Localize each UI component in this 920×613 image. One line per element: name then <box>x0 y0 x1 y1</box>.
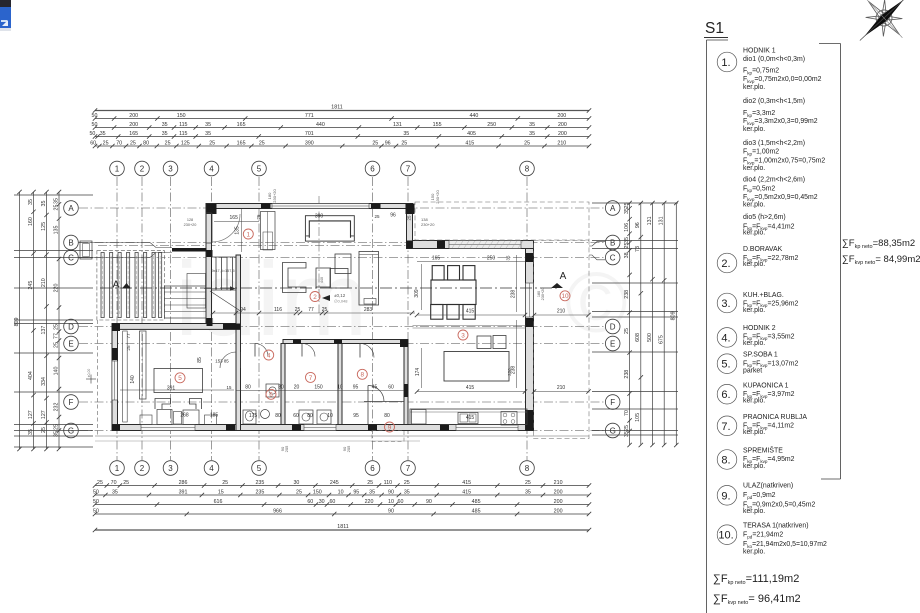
svg-text:25: 25 <box>401 140 407 146</box>
svg-text:7: 7 <box>309 375 313 382</box>
door laundry swing <box>302 344 315 357</box>
svg-text:dio1 (0,0m<h<0,3m): dio1 (0,0m<h<0,3m) <box>743 56 805 63</box>
svg-text:116: 116 <box>274 307 282 313</box>
window top wall <box>272 204 369 209</box>
svg-text:35: 35 <box>525 489 531 495</box>
grid bubble 5 top <box>252 161 267 176</box>
svg-text:A: A <box>113 280 120 291</box>
room label 4 HODNIK 2 <box>264 350 274 360</box>
svg-text:∑Fkvp neto= 84,99m2: ∑Fkvp neto= 84,99m2 <box>842 254 920 266</box>
svg-text:Fkvp=0,75m2x0,0=0,00m2: Fkvp=0,75m2x0,0=0,00m2 <box>743 76 822 84</box>
svg-text:ker.plo.: ker.plo. <box>743 230 765 237</box>
entry door (ULAZ) with swing arc <box>364 386 404 425</box>
svg-text:S1: S1 <box>705 20 724 37</box>
svg-text:25: 25 <box>53 205 59 211</box>
svg-text:PRAONICA RUBLJA: PRAONICA RUBLJA <box>743 414 807 421</box>
svg-text:35: 35 <box>162 122 168 128</box>
grid bubble E right <box>605 336 620 351</box>
dimension chain left row 3 <box>41 190 49 451</box>
structural columns (black) <box>112 204 534 431</box>
svg-text:ker.plo.: ker.plo. <box>743 165 765 172</box>
bathroom washbasin <box>261 410 270 419</box>
svg-text:parket: parket <box>743 368 762 375</box>
sofa (living room) <box>305 216 354 241</box>
svg-text:405: 405 <box>467 131 476 137</box>
dimension chain top row 4 <box>89 131 591 139</box>
dimension chain right row 4 <box>659 201 667 447</box>
lintel beam above exterior steps <box>172 248 207 252</box>
laundry washing machine <box>299 410 313 424</box>
svg-text:485: 485 <box>472 508 481 514</box>
svg-text:125: 125 <box>41 222 47 231</box>
wall row D lower-left <box>112 324 240 330</box>
svg-text:390: 390 <box>305 140 314 146</box>
window left wall lower (bedroom) <box>112 361 118 400</box>
bathroom toilet <box>243 410 256 424</box>
svg-text:90: 90 <box>426 499 432 505</box>
svg-text:35: 35 <box>205 122 211 128</box>
svg-text:153 85: 153 85 <box>215 359 229 364</box>
svg-text:96: 96 <box>390 213 396 219</box>
leader step C left <box>78 253 172 258</box>
svg-text:415: 415 <box>462 489 471 495</box>
kitchen beam lines <box>413 325 526 327</box>
svg-text:A: A <box>560 271 567 282</box>
svg-text:dio5 (h>2,6m): dio5 (h>2,6m) <box>743 214 786 221</box>
svg-text:200: 200 <box>129 113 138 119</box>
svg-text:150: 150 <box>314 385 323 391</box>
hall closet <box>261 212 276 250</box>
door bedroom swing <box>220 352 241 368</box>
legend room 10 circle <box>717 525 737 545</box>
svg-text:10: 10 <box>327 413 333 419</box>
grid bubble A right <box>605 201 620 216</box>
grid bubble B left <box>64 235 79 250</box>
svg-text:KUH.+BLAG.: KUH.+BLAG. <box>743 292 784 299</box>
grid bubble D right <box>605 319 620 334</box>
svg-text:35: 35 <box>53 198 59 204</box>
svg-text:6.: 6. <box>721 389 730 401</box>
svg-text:KUPAONICA 1: KUPAONICA 1 <box>743 383 789 390</box>
kitchen fridge <box>412 410 427 425</box>
svg-text:230+20: 230+20 <box>541 288 545 301</box>
svg-text:230+20: 230+20 <box>272 189 277 203</box>
svg-text:35: 35 <box>112 489 118 495</box>
svg-text:D: D <box>610 322 616 331</box>
svg-text:25: 25 <box>259 140 265 146</box>
svg-text:391: 391 <box>167 386 176 392</box>
extension lines right <box>592 203 678 435</box>
room label 2 D.BORAVAK <box>310 292 320 302</box>
svg-text:25: 25 <box>624 203 630 209</box>
svg-text:35: 35 <box>624 237 630 243</box>
room label 7 PRAONICA RUBLJA <box>306 372 316 382</box>
section marker A left <box>113 280 131 291</box>
svg-text:90: 90 <box>388 508 394 514</box>
svg-text:73: 73 <box>635 246 641 252</box>
svg-text:50: 50 <box>92 113 98 119</box>
taskbar icon fragment top-left <box>0 0 11 31</box>
svg-text:334: 334 <box>41 377 47 386</box>
svg-text:35: 35 <box>529 122 535 128</box>
legend room 5 circle <box>717 354 737 374</box>
svg-text:9.: 9. <box>721 490 730 502</box>
svg-text:ker.plo.: ker.plo. <box>743 463 765 470</box>
svg-text:500: 500 <box>647 333 653 342</box>
legend entry 2 D.BORAVAK <box>743 246 798 268</box>
svg-text:137: 137 <box>41 326 47 335</box>
svg-text:185: 185 <box>210 413 219 419</box>
svg-text:96: 96 <box>635 222 641 228</box>
svg-text:238: 238 <box>511 290 517 299</box>
window right wall <box>526 283 534 317</box>
svg-text:25: 25 <box>103 140 109 146</box>
svg-text:175: 175 <box>249 413 258 419</box>
svg-text:ker.plo.: ker.plo. <box>743 508 765 515</box>
svg-text:4: 4 <box>209 164 214 173</box>
svg-text:160: 160 <box>28 217 34 226</box>
svg-text:10: 10 <box>388 499 394 505</box>
room label 10 TERASA 1 <box>560 291 570 301</box>
svg-text:ker.plo.: ker.plo. <box>743 429 765 436</box>
svg-text:60: 60 <box>90 140 96 146</box>
svg-text:ker.plo.: ker.plo. <box>743 202 765 209</box>
svg-text:809: 809 <box>671 311 677 320</box>
svg-text:286: 286 <box>179 480 188 486</box>
door terrace-hall with swing arc <box>206 213 240 243</box>
svg-text:D.BORAVAK: D.BORAVAK <box>743 246 783 253</box>
svg-text:283: 283 <box>364 307 373 313</box>
svg-text:35: 35 <box>529 131 535 137</box>
svg-text:Fkvp=1,00m2x0,75=0,75m2: Fkvp=1,00m2x0,75=0,75m2 <box>743 158 825 166</box>
svg-text:415: 415 <box>466 309 475 315</box>
svg-text:415: 415 <box>462 480 471 486</box>
svg-text:230+20: 230+20 <box>184 223 197 227</box>
grid bubble 6 bottom <box>365 461 380 476</box>
svg-text:35: 35 <box>162 131 168 137</box>
svg-text:25: 25 <box>53 324 59 330</box>
svg-text:A: A <box>610 204 616 213</box>
svg-text:140: 140 <box>53 367 59 376</box>
dining area dim row y259.5 <box>417 256 525 262</box>
svg-text:ker.plo.: ker.plo. <box>743 84 765 91</box>
svg-text:35: 35 <box>28 429 34 435</box>
legend room 9 circle <box>717 486 737 506</box>
svg-text:1811: 1811 <box>331 104 342 110</box>
grid bubble E left <box>64 336 79 351</box>
svg-text:15: 15 <box>227 385 232 390</box>
legend entry 4 HODNIK 2 <box>743 325 795 347</box>
window top-right wall <box>449 241 523 249</box>
grid bubble 7 top <box>401 161 416 176</box>
svg-text:30: 30 <box>293 480 299 486</box>
svg-text:127: 127 <box>41 410 47 419</box>
svg-text:∅0,048: ∅0,048 <box>334 299 348 304</box>
svg-text:809: 809 <box>14 318 20 327</box>
svg-text:150: 150 <box>313 489 322 495</box>
svg-text:155: 155 <box>433 122 442 128</box>
svg-text:B: B <box>610 238 615 247</box>
tv cabinet <box>359 252 379 306</box>
window bottom wall laundry <box>304 425 336 431</box>
grid bubble D left <box>64 319 79 334</box>
door bathroom swing <box>255 344 268 357</box>
interior dimension row y388 <box>236 385 404 391</box>
svg-text:9: 9 <box>388 424 392 431</box>
svg-text:E: E <box>68 339 73 348</box>
svg-text:95: 95 <box>353 413 359 419</box>
svg-text:25: 25 <box>126 345 131 351</box>
svg-text:106: 106 <box>624 223 630 232</box>
svg-text:©: © <box>565 256 628 351</box>
svg-text:±0,00: ±0,00 <box>87 369 91 378</box>
svg-text:35: 35 <box>41 201 47 207</box>
grid bubble 1 bottom <box>110 461 125 476</box>
interior dimension row y310 <box>211 307 415 315</box>
leader step B right <box>589 242 605 246</box>
porch column left edge <box>80 241 92 259</box>
svg-text:25: 25 <box>53 342 59 348</box>
svg-text:415: 415 <box>466 385 475 391</box>
svg-text:10: 10 <box>561 293 569 300</box>
svg-text:415: 415 <box>465 140 474 146</box>
svg-text:1811: 1811 <box>337 524 348 530</box>
svg-text:77: 77 <box>126 333 131 339</box>
svg-text:440: 440 <box>469 113 478 119</box>
svg-text:25: 25 <box>123 480 129 486</box>
svg-text:25: 25 <box>372 140 378 146</box>
wall lining strip bedroom <box>123 331 128 422</box>
grid bubble F right <box>605 395 620 410</box>
svg-text:2.: 2. <box>721 258 730 270</box>
svg-text:150: 150 <box>177 113 186 119</box>
svg-text:25: 25 <box>525 480 531 486</box>
svg-text:8: 8 <box>525 464 530 473</box>
svg-text:95: 95 <box>353 385 359 391</box>
svg-text:25: 25 <box>295 307 301 313</box>
svg-text:25: 25 <box>165 140 171 146</box>
svg-text:35: 35 <box>624 431 630 437</box>
svg-text:230+20: 230+20 <box>421 222 435 227</box>
svg-text:80: 80 <box>278 385 284 391</box>
wall exterior top-right <box>407 241 534 249</box>
wall bedroom-corridor x238 <box>236 329 241 430</box>
grid bubble 4 top <box>204 161 219 176</box>
extension lines left <box>14 195 93 447</box>
legend room 6 circle <box>717 384 737 404</box>
svg-text:250: 250 <box>487 256 496 262</box>
svg-text:80: 80 <box>384 413 390 419</box>
room label 8 SPREMISTE <box>357 369 367 379</box>
bedroom side cabinets <box>140 415 152 425</box>
svg-text:200: 200 <box>558 122 567 128</box>
dining chairs <box>431 266 476 320</box>
legend entry 8 SPREMISTE <box>743 445 795 470</box>
svg-text:dio4 (2,2m<h<2,6m): dio4 (2,2m<h<2,6m) <box>743 176 805 183</box>
coffee table <box>316 268 331 287</box>
svg-text:235: 235 <box>255 480 264 486</box>
dimension chain right row 1 <box>624 201 632 447</box>
entry canopy dashed <box>372 431 404 442</box>
dimension chain left total 809 <box>14 190 22 451</box>
svg-text:60: 60 <box>329 499 335 505</box>
watermark <box>175 241 628 358</box>
armchair <box>283 263 307 293</box>
wall bath-laundry x283 <box>281 344 285 425</box>
dimension chain left row 4 <box>53 190 61 451</box>
svg-text:3.: 3. <box>721 298 730 310</box>
svg-text:135: 135 <box>234 226 240 235</box>
grid bubble 1 top <box>110 161 125 176</box>
svg-text:5.: 5. <box>721 359 730 371</box>
svg-text:165: 165 <box>230 215 239 221</box>
svg-text:dio3 (1,5m<h<2,2m): dio3 (1,5m<h<2,2m) <box>743 140 805 147</box>
room label 9 ULAZ <box>385 422 395 432</box>
svg-text:35: 35 <box>369 489 375 495</box>
svg-text:50: 50 <box>93 499 99 505</box>
grid bubble C left <box>64 250 79 265</box>
svg-text:7: 7 <box>406 164 411 173</box>
grid bubble 8 top <box>520 161 535 176</box>
svg-text:10: 10 <box>338 489 344 495</box>
pergola joists <box>101 253 162 318</box>
roof overhang front (over entry) <box>415 202 589 240</box>
svg-text:25: 25 <box>367 480 373 486</box>
wall exterior left upper <box>206 204 212 330</box>
svg-text:4: 4 <box>267 352 271 359</box>
svg-text:38: 38 <box>624 252 630 258</box>
dining table <box>431 280 476 305</box>
svg-text:2: 2 <box>140 464 145 473</box>
svg-text:165: 165 <box>129 131 138 137</box>
spot elevation marker <box>322 293 348 304</box>
dimension chain right total 809 <box>671 201 679 447</box>
laundry dryer <box>317 410 331 424</box>
svg-text:94: 94 <box>240 307 246 313</box>
grid bubble 3 top <box>163 161 178 176</box>
svg-text:F: F <box>69 398 74 407</box>
svg-text:25: 25 <box>222 480 228 486</box>
grid row axis lines <box>79 208 604 431</box>
svg-text:25: 25 <box>374 214 380 219</box>
svg-text:135: 135 <box>53 226 59 235</box>
legend room 4 circle <box>717 328 737 348</box>
svg-text:210: 210 <box>41 278 47 287</box>
svg-text:390: 390 <box>315 214 324 220</box>
svg-text:35: 35 <box>100 131 106 137</box>
svg-text:25: 25 <box>624 328 630 334</box>
legend entry 1 HODNIK 1 <box>743 48 825 237</box>
svg-text:ker.plo.: ker.plo. <box>743 340 765 347</box>
svg-text:205: 205 <box>284 445 289 452</box>
roof overhang right terrace <box>534 241 590 439</box>
svg-text:131: 131 <box>647 216 653 225</box>
svg-text:8.: 8. <box>721 455 730 467</box>
room label 5 SP.SOBA 1 <box>175 373 185 383</box>
svg-text:SPREMIŠTE: SPREMIŠTE <box>743 445 783 454</box>
svg-text:9x17,5=157,5: 9x17,5=157,5 <box>211 269 234 273</box>
svg-text:309: 309 <box>414 289 420 298</box>
wall connector x410 <box>407 204 413 249</box>
svg-text:85: 85 <box>197 357 203 363</box>
svg-text:440: 440 <box>320 277 324 283</box>
grid bubble A left <box>64 201 79 216</box>
svg-text:200: 200 <box>554 499 563 505</box>
grid bubble G right <box>605 423 620 438</box>
kitchen stools <box>477 336 491 349</box>
legend room 3 circle <box>717 293 737 313</box>
dimension chain right row 3 <box>647 201 655 447</box>
svg-text:TERASA 1(natkriven): TERASA 1(natkriven) <box>743 523 808 530</box>
grid bubble G left <box>64 423 79 438</box>
section marker A right <box>551 271 567 288</box>
svg-text:210: 210 <box>554 480 563 486</box>
wall laundry-storage x340 <box>338 344 342 425</box>
legend box border <box>707 40 841 613</box>
svg-text:50: 50 <box>93 508 99 514</box>
svg-text:B: B <box>68 238 73 247</box>
svg-text:238: 238 <box>511 366 517 375</box>
svg-text:25: 25 <box>404 480 410 486</box>
svg-text:25: 25 <box>41 427 47 433</box>
legend room 2 circle <box>717 253 737 273</box>
wall exterior top <box>206 204 413 209</box>
dimension chain left row 2 <box>28 190 36 451</box>
svg-text:6: 6 <box>269 392 273 399</box>
room label 6 KUPAONICA 1 <box>266 389 276 399</box>
wall exterior left lower <box>112 324 118 431</box>
svg-text:35: 35 <box>404 489 410 495</box>
svg-text:250: 250 <box>487 122 496 128</box>
svg-text:165: 165 <box>237 140 246 146</box>
svg-text:1.: 1. <box>721 57 730 69</box>
svg-text:35: 35 <box>403 131 409 137</box>
exterior landing rectangle <box>187 274 206 309</box>
svg-text:3: 3 <box>461 332 465 339</box>
legend entry 3 KUH.+BLAG. <box>743 292 798 314</box>
svg-text:701: 701 <box>305 131 314 137</box>
bed <box>154 369 203 410</box>
room label 1 HODNIK 1 <box>243 229 253 239</box>
kitchen stove <box>501 412 517 426</box>
svg-text:7: 7 <box>406 464 411 473</box>
leader step B left <box>78 243 172 248</box>
svg-text:80: 80 <box>275 413 281 419</box>
svg-text:404: 404 <box>28 371 34 380</box>
svg-text:±0,12: ±0,12 <box>334 293 346 298</box>
svg-text:25: 25 <box>130 140 136 146</box>
svg-text:ker.plo.: ker.plo. <box>743 126 765 133</box>
svg-text:5: 5 <box>178 375 182 382</box>
svg-text:110: 110 <box>384 480 392 486</box>
dimension chain bottom row 2 <box>93 489 591 497</box>
dimension chain bottom row 3 <box>93 499 591 507</box>
svg-text:210: 210 <box>557 140 566 146</box>
svg-text:80: 80 <box>245 385 251 391</box>
svg-text:25: 25 <box>524 140 530 146</box>
grid bubble 6 top <box>365 161 380 176</box>
svg-text:dio2 (0,3m<h<1,5m): dio2 (0,3m<h<1,5m) <box>743 98 805 105</box>
svg-text:25: 25 <box>256 214 261 219</box>
svg-text:174: 174 <box>415 368 421 377</box>
svg-text:1: 1 <box>247 231 251 238</box>
svg-text:20: 20 <box>294 385 300 391</box>
svg-text:238: 238 <box>624 290 630 299</box>
legend room 7 circle <box>717 416 737 436</box>
compass rose <box>841 0 920 60</box>
svg-text:1: 1 <box>115 164 120 173</box>
dimension chain bottom total 1811 <box>93 524 591 532</box>
